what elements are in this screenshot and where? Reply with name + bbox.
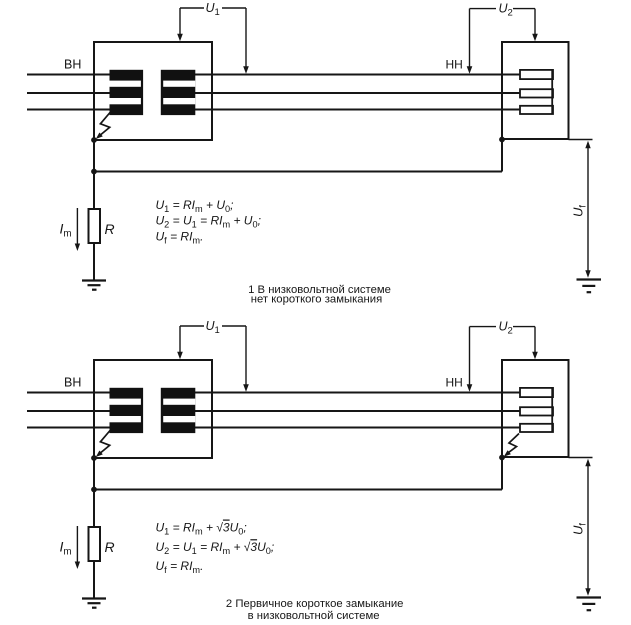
svg-text:в низковольтной системе: в низковольтной системе <box>248 610 380 622</box>
svg-text:U2 = U1 = RIm + U0;: U2 = U1 = RIm + U0; <box>156 213 261 229</box>
svg-text:2 Первичное короткое замыкание: 2 Первичное короткое замыкание <box>226 598 404 610</box>
svg-text:нет короткого замыкания: нет короткого замыкания <box>251 294 382 306</box>
svg-text:U2 = U1 = RIm + √3U0;: U2 = U1 = RIm + √3U0; <box>156 540 275 556</box>
